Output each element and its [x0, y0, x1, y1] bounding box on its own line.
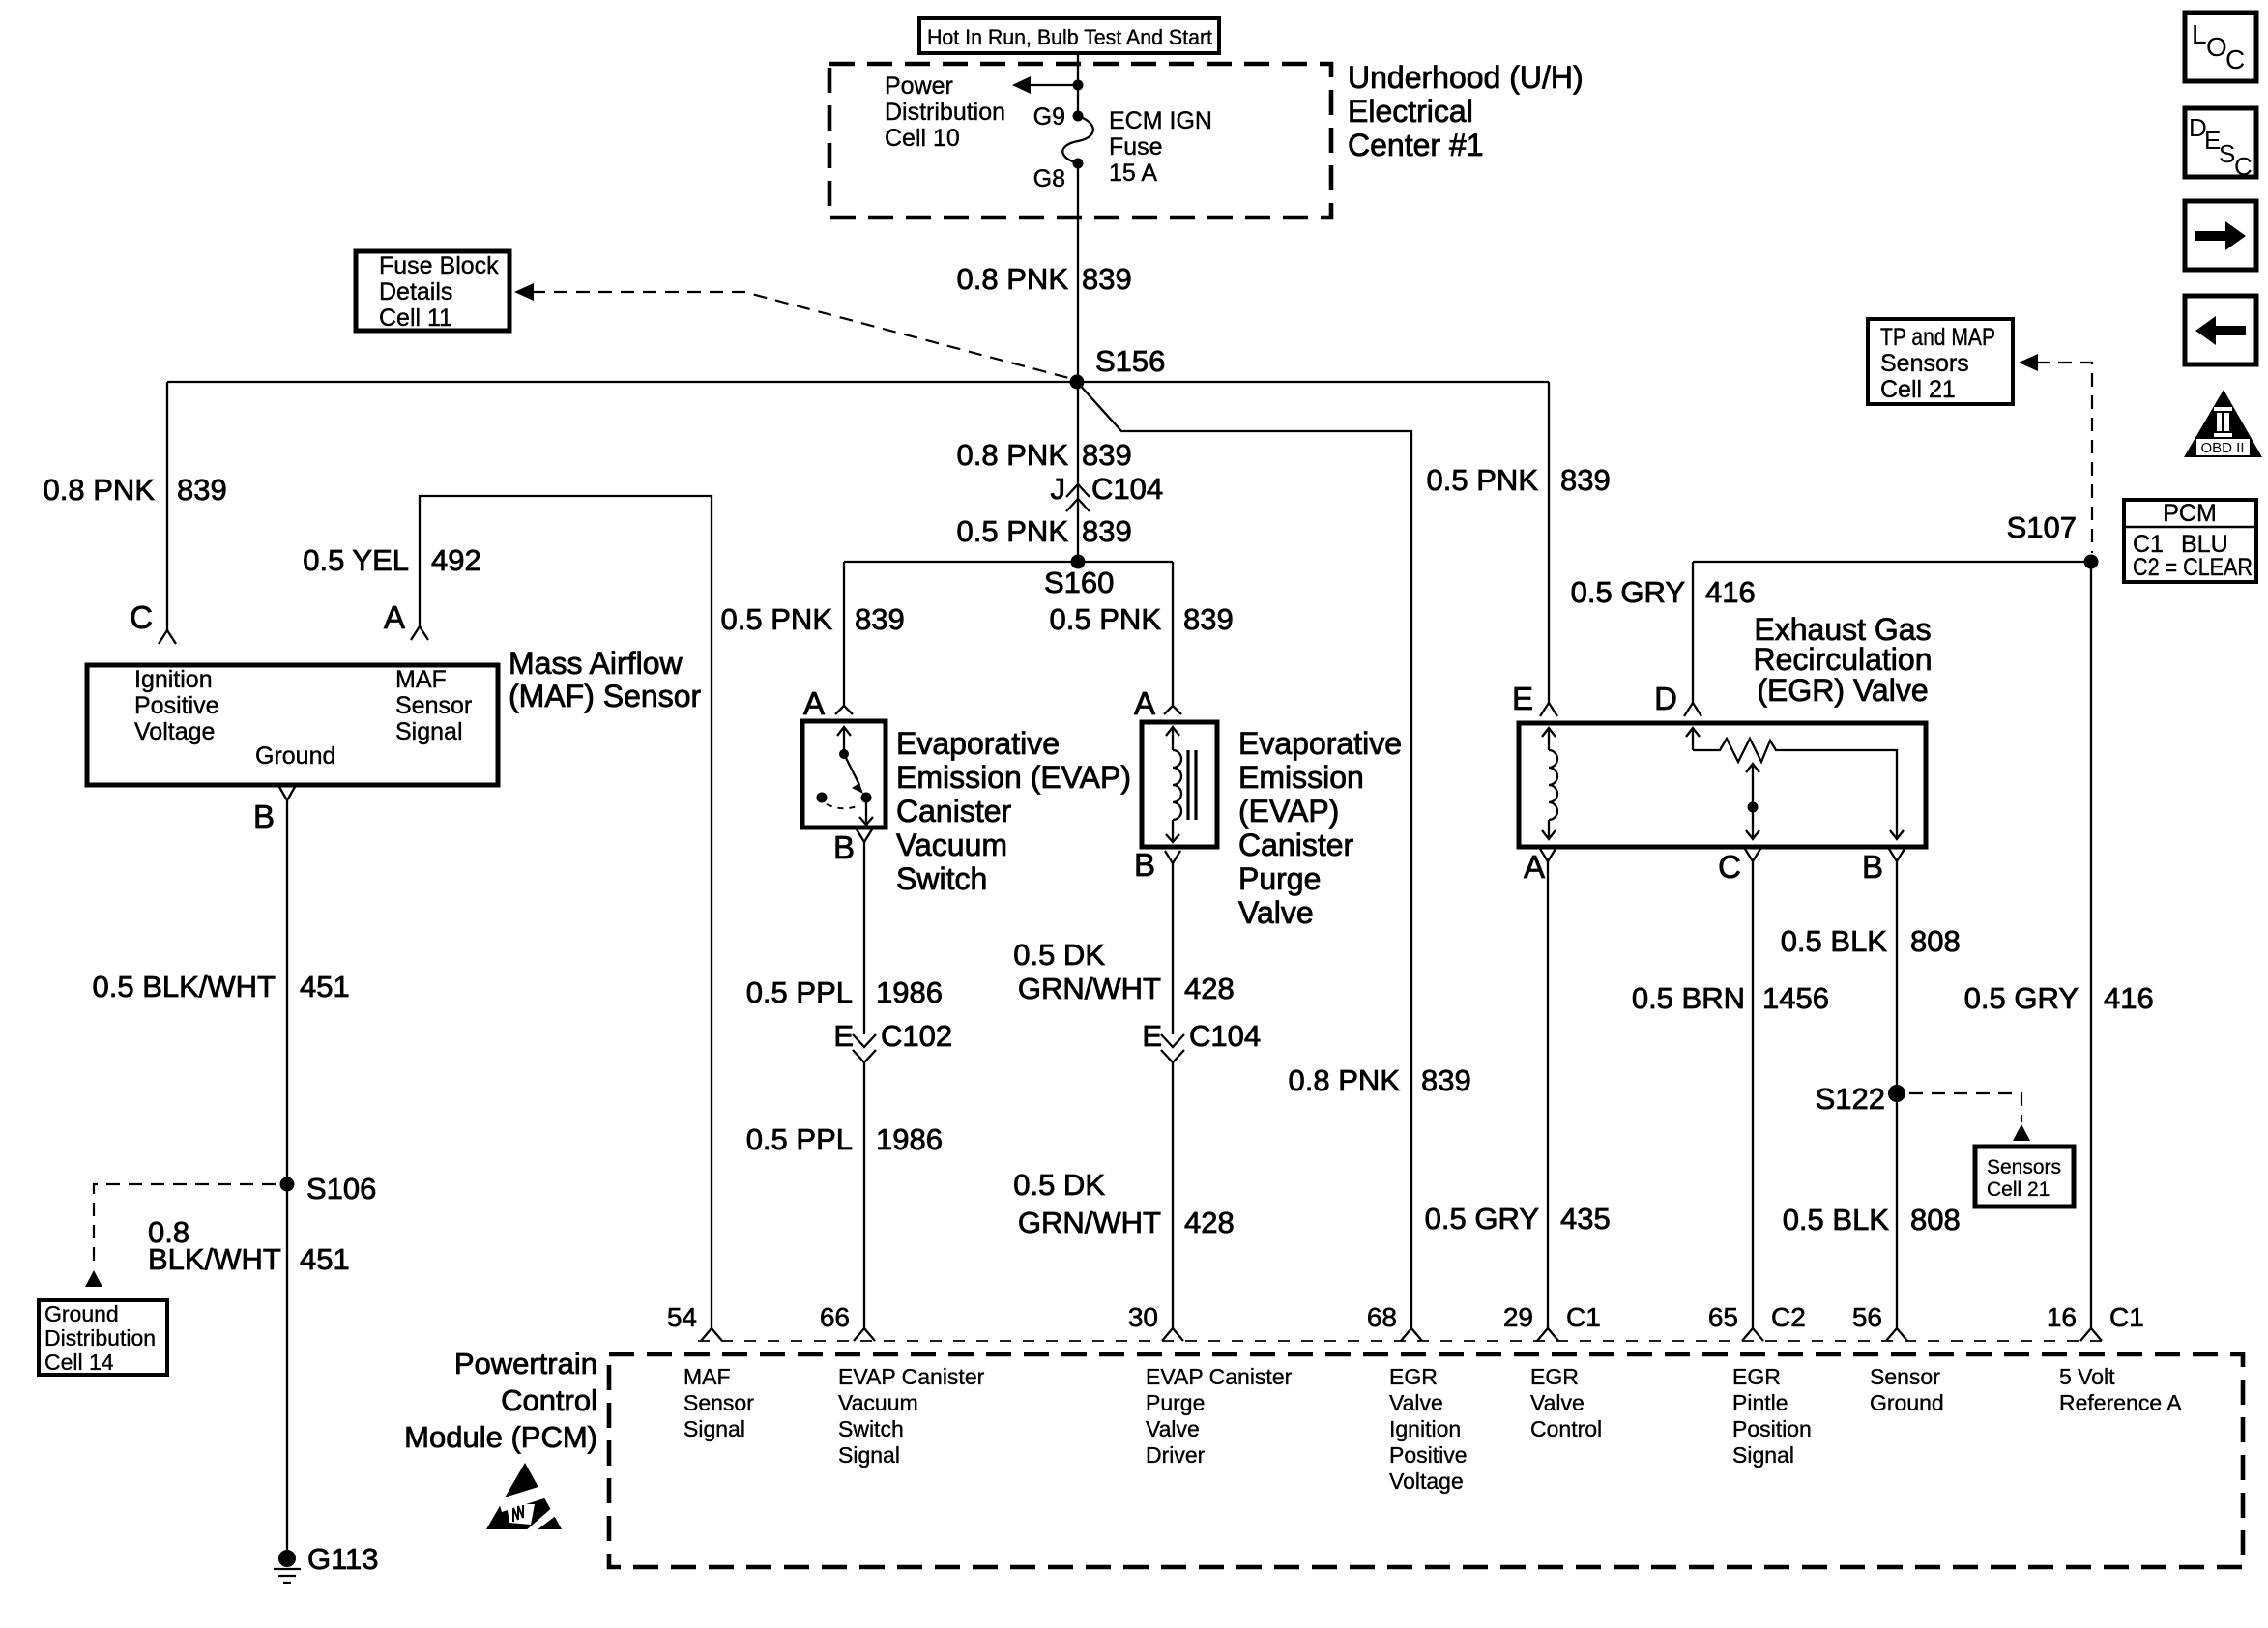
svg-text:C2 = CLEAR: C2 = CLEAR — [2133, 554, 2253, 581]
wire: drop S156 to S160 with connector — [1077, 382, 1079, 562]
svg-text:0.8 PNK: 0.8 PNK — [957, 262, 1069, 296]
svg-text:Emission (EVAP): Emission (EVAP) — [896, 760, 1131, 795]
svg-text:Sensor: Sensor — [395, 692, 472, 719]
PCM connector row: female terminals — [698, 1340, 2104, 1342]
wire: power distribution arrow stub — [1012, 76, 1084, 94]
wire: feed from Hot box to fuse — [1077, 55, 1079, 116]
svg-text:Evaporative: Evaporative — [1238, 726, 1402, 761]
svg-text:Vacuum: Vacuum — [896, 828, 1007, 862]
svg-text:Valve: Valve — [1530, 1390, 1585, 1415]
svg-text:GRN/WHT: GRN/WHT — [1018, 1206, 1161, 1239]
terminal D of EGR — [1654, 562, 1701, 716]
terminal pin 54 — [701, 1328, 712, 1341]
svg-text:C: C — [130, 599, 153, 635]
svg-text:Signal: Signal — [683, 1416, 745, 1441]
terminal B of purge valve — [1134, 847, 1180, 883]
svg-text:GRN/WHT: GRN/WHT — [1018, 972, 1161, 1005]
svg-text:1986: 1986 — [876, 975, 943, 1009]
svg-text:Valve: Valve — [1146, 1416, 1200, 1441]
svg-text:16: 16 — [2047, 1302, 2077, 1332]
svg-text:S107: S107 — [2007, 510, 2077, 544]
svg-text:J: J — [1051, 472, 1066, 506]
svg-text:Valve: Valve — [1238, 895, 1314, 930]
svg-text:Cell 14: Cell 14 — [44, 1350, 114, 1375]
solenoid L2 (EGR coil E-A) — [1542, 728, 1557, 839]
splice S106 — [280, 1172, 377, 1206]
svg-text:S106: S106 — [306, 1172, 376, 1206]
icon: forward arrow box — [2185, 201, 2256, 270]
svg-text:0.5 PNK: 0.5 PNK — [1427, 463, 1539, 497]
svg-text:Signal: Signal — [395, 718, 463, 745]
svg-text:492: 492 — [431, 543, 481, 577]
svg-text:Distribution: Distribution — [44, 1325, 156, 1351]
svg-text:(MAF) Sensor: (MAF) Sensor — [509, 679, 701, 713]
svg-text:65: 65 — [1708, 1302, 1738, 1332]
MAF sensor box — [87, 665, 498, 785]
svg-text:A: A — [803, 685, 825, 721]
svg-text:Cell 21: Cell 21 — [1880, 376, 1956, 403]
svg-text:839: 839 — [1421, 1063, 1471, 1097]
svg-text:1456: 1456 — [1762, 981, 1829, 1015]
svg-text:(EVAP): (EVAP) — [1238, 794, 1339, 829]
connector E C104 — [1142, 1019, 1261, 1062]
EGR valve box — [1519, 723, 1926, 847]
svg-text:56: 56 — [1852, 1302, 1882, 1332]
underhood electrical center dashed box — [829, 64, 1331, 218]
svg-text:B: B — [253, 799, 275, 834]
svg-text:TP and MAP: TP and MAP — [1880, 324, 1995, 351]
terminal A of vacuum switch — [803, 685, 853, 721]
svg-text:E: E — [1512, 681, 1533, 716]
svg-text:Driver: Driver — [1146, 1442, 1206, 1468]
svg-text:Fuse Block: Fuse Block — [379, 252, 499, 279]
svg-text:Positive: Positive — [134, 692, 219, 719]
label: Evaporative Emission (EVAP) Canister Vacuum Switch — [896, 726, 1131, 896]
svg-text:Sensors: Sensors — [1880, 350, 1969, 377]
terminal B of MAF — [253, 787, 295, 834]
node: Ground Distribution Cell 14 box — [39, 1300, 167, 1375]
svg-text:PCM: PCM — [2163, 500, 2217, 527]
svg-text:O: O — [2206, 32, 2227, 62]
svg-text:Power: Power — [885, 73, 953, 100]
svg-text:Ground: Ground — [255, 742, 335, 770]
svg-text:Vacuum: Vacuum — [838, 1390, 918, 1415]
svg-text:0.5 PNK: 0.5 PNK — [1050, 602, 1162, 636]
svg-text:Ignition: Ignition — [134, 666, 213, 693]
svg-text:Mass Airflow: Mass Airflow — [509, 646, 683, 681]
wire: purge B to pin 30 — [1172, 863, 1174, 1034]
splice S156 — [1070, 344, 1166, 390]
terminal B of vacuum switch — [833, 829, 872, 865]
svg-text:Canister: Canister — [1238, 828, 1354, 862]
svg-text:Distribution: Distribution — [885, 99, 1005, 126]
terminal A of purge valve — [1134, 685, 1181, 721]
connector E C102 — [833, 1019, 952, 1062]
svg-text:D: D — [1654, 681, 1677, 716]
label: Powertrain Control Module (PCM) — [404, 1347, 597, 1454]
svg-text:0.5 BLK: 0.5 BLK — [1783, 1203, 1890, 1236]
svg-text:839: 839 — [1183, 602, 1234, 636]
wire: dashed reference S107 to TP/MAP — [2019, 354, 2092, 553]
svg-text:C: C — [2225, 44, 2245, 74]
wire: main horizontal bus at S156 — [167, 381, 1549, 383]
svg-text:Ignition: Ignition — [1389, 1416, 1461, 1441]
svg-text:30: 30 — [1128, 1302, 1158, 1332]
node: Fuse Block Details Cell 11 box — [356, 251, 509, 332]
icon: DESC box — [2185, 108, 2256, 181]
svg-text:0.5 BLK/WHT: 0.5 BLK/WHT — [93, 970, 276, 1003]
svg-text:B: B — [833, 829, 855, 865]
svg-text:Control: Control — [501, 1383, 597, 1417]
svg-text:EVAP Canister: EVAP Canister — [838, 1364, 985, 1389]
svg-text:C: C — [2234, 152, 2253, 181]
svg-text:839: 839 — [1082, 438, 1132, 472]
label: Evaporative Emission (EVAP) Canister Purge Valve — [1238, 726, 1402, 930]
svg-text:A: A — [1134, 685, 1155, 721]
svg-text:Control: Control — [1530, 1416, 1602, 1441]
EVAP canister vacuum switch box — [802, 721, 886, 828]
svg-text:839: 839 — [1082, 262, 1132, 296]
switch SW1 internals — [817, 727, 874, 825]
svg-text:416: 416 — [1705, 575, 1756, 609]
svg-text:Module (PCM): Module (PCM) — [404, 1420, 597, 1454]
svg-text:428: 428 — [1184, 972, 1235, 1005]
svg-text:Evaporative: Evaporative — [896, 726, 1060, 761]
svg-text:Pintle: Pintle — [1732, 1390, 1788, 1415]
icon: back arrow box — [2185, 296, 2256, 364]
svg-text:Purge: Purge — [1238, 861, 1321, 896]
svg-text:54: 54 — [667, 1302, 697, 1332]
wire: drop to EVAP vacuum switch A — [843, 562, 845, 706]
splice S122 — [1816, 1082, 1905, 1116]
svg-text:5 Volt: 5 Volt — [2059, 1364, 2115, 1389]
svg-text:MAF: MAF — [395, 666, 447, 693]
svg-text:0.8 PNK: 0.8 PNK — [1289, 1063, 1401, 1097]
svg-text:Underhood (U/H): Underhood (U/H) — [1348, 60, 1584, 95]
wire: drop to EVAP purge valve A — [1172, 562, 1174, 706]
svg-text:Hot In Run, Bulb Test And Star: Hot In Run, Bulb Test And Start — [927, 25, 1212, 49]
svg-text:G9: G9 — [1033, 103, 1065, 131]
svg-text:A: A — [1524, 849, 1545, 885]
svg-text:G113: G113 — [307, 1542, 379, 1576]
solenoid L1 internals — [1166, 727, 1196, 842]
svg-text:E: E — [833, 1019, 854, 1053]
terminal pin 68 — [1401, 1328, 1411, 1341]
svg-text:Positive: Positive — [1389, 1442, 1468, 1468]
svg-text:EVAP Canister: EVAP Canister — [1146, 1364, 1293, 1389]
svg-text:808: 808 — [1910, 1203, 1961, 1236]
node: Hot In Run feed box — [919, 18, 1219, 53]
svg-text:Cell 21: Cell 21 — [1987, 1178, 2050, 1201]
svg-text:0.5 PPL: 0.5 PPL — [746, 975, 853, 1009]
label 0.8 BLK/WHT 451 — [148, 1215, 350, 1276]
svg-text:S: S — [2219, 139, 2235, 168]
connector J C104 — [1051, 472, 1164, 511]
svg-text:Purge: Purge — [1146, 1390, 1205, 1415]
svg-text:0.8 PNK: 0.8 PNK — [957, 438, 1069, 472]
svg-text:Valve: Valve — [1389, 1390, 1443, 1415]
svg-text:ECM IGN: ECM IGN — [1109, 107, 1212, 134]
svg-text:Reference A: Reference A — [2059, 1390, 2182, 1415]
node: PCM connector legend box — [2124, 500, 2256, 582]
svg-text:EGR: EGR — [1732, 1364, 1781, 1389]
terminal pin 66 — [854, 1328, 864, 1341]
svg-text:C1: C1 — [1566, 1302, 1601, 1332]
svg-text:Center #1: Center #1 — [1348, 128, 1484, 162]
svg-text:Details: Details — [379, 278, 452, 305]
svg-text:Ground: Ground — [44, 1301, 119, 1326]
svg-text:Switch: Switch — [896, 861, 987, 896]
wire: EGR B to pin 56 — [1896, 861, 1898, 1328]
splice S160 — [1044, 555, 1114, 600]
svg-text:0.5 YEL: 0.5 YEL — [303, 543, 409, 577]
svg-text:Emission: Emission — [1238, 760, 1364, 795]
svg-text:808: 808 — [1910, 924, 1961, 958]
svg-text:Cell 10: Cell 10 — [885, 125, 960, 152]
svg-text:0.8 PNK: 0.8 PNK — [44, 473, 156, 507]
svg-text:0.5 GRY: 0.5 GRY — [1964, 981, 2079, 1015]
svg-text:A: A — [384, 599, 405, 635]
terminal C of EGR — [1718, 849, 1760, 885]
svg-text:L: L — [2192, 19, 2207, 49]
label: Underhood Electrical Center — [1348, 60, 1584, 162]
terminal C of MAF — [130, 599, 176, 644]
svg-text:451: 451 — [300, 1242, 350, 1276]
svg-text:839: 839 — [1082, 514, 1132, 548]
wire: branch to pin 68 — [1077, 382, 1411, 1328]
svg-text:Switch: Switch — [838, 1416, 904, 1441]
svg-text:Sensor: Sensor — [1870, 1364, 1940, 1389]
svg-text:C104: C104 — [1091, 472, 1163, 506]
PCM pin function labels — [683, 1364, 754, 1441]
svg-text:416: 416 — [2104, 981, 2154, 1015]
svg-text:Voltage: Voltage — [134, 718, 215, 745]
svg-text:EGR: EGR — [1530, 1364, 1579, 1389]
svg-text:G8: G8 — [1033, 165, 1065, 192]
svg-text:C102: C102 — [881, 1019, 952, 1053]
wire: S107 bus to D — [1693, 561, 2091, 563]
terminal E of EGR — [1512, 681, 1557, 716]
wire: S107 to pin 16 — [2090, 562, 2092, 1328]
wire: S160 bus — [844, 561, 1173, 563]
svg-text:S122: S122 — [1816, 1082, 1885, 1116]
wire: EGR C to pin 65 — [1752, 861, 1754, 1328]
pin numbers — [667, 1302, 2144, 1332]
svg-text:428: 428 — [1184, 1206, 1235, 1239]
terminal pin 29 — [1537, 1328, 1548, 1341]
svg-text:Sensor: Sensor — [683, 1390, 754, 1415]
svg-text:29: 29 — [1503, 1302, 1533, 1332]
svg-text:0.5 PNK: 0.5 PNK — [721, 602, 833, 636]
wire: dashed reference S122 to sensors cell — [1909, 1093, 2030, 1141]
label: Mass Airflow (MAF) Sensor — [509, 646, 701, 713]
wire: right drop to EGR E — [1548, 382, 1550, 703]
svg-text:(EGR) Valve: (EGR) Valve — [1757, 673, 1928, 708]
terminal pin 65 — [1742, 1328, 1753, 1341]
wire: MAF A signal to pin 54 — [420, 496, 712, 1328]
svg-text:0.5 DK: 0.5 DK — [1013, 1168, 1105, 1202]
PCM dashed box — [609, 1354, 2243, 1567]
svg-text:C104: C104 — [1189, 1019, 1261, 1053]
svg-text:Ground: Ground — [1870, 1390, 1944, 1415]
svg-text:S160: S160 — [1044, 566, 1114, 599]
svg-text:Signal: Signal — [1732, 1442, 1794, 1468]
svg-text:0.5 BLK: 0.5 BLK — [1781, 924, 1888, 958]
wire: EGR A to pin 29 — [1547, 861, 1549, 1328]
label: Exhaust Gas Recirculation (EGR) Valve — [1754, 612, 1933, 708]
svg-text:C2: C2 — [1771, 1302, 1806, 1332]
svg-text:Position: Position — [1732, 1416, 1812, 1441]
svg-text:Signal: Signal — [838, 1442, 900, 1468]
icon: OBD II triangle — [2184, 390, 2262, 457]
terminal pin 16 — [2080, 1328, 2091, 1341]
terminal pin 30 — [1162, 1328, 1173, 1341]
node: Sensors Cell 21 box — [1975, 1147, 2074, 1206]
terminal B of EGR — [1862, 849, 1905, 885]
svg-text:839: 839 — [177, 473, 227, 507]
svg-text:BLK/WHT: BLK/WHT — [148, 1242, 281, 1276]
potentiometer R1 (EGR pintle position) — [1686, 728, 1904, 839]
svg-text:0.5 GRY: 0.5 GRY — [1425, 1202, 1539, 1236]
svg-text:1986: 1986 — [876, 1122, 943, 1156]
svg-text:Voltage: Voltage — [1389, 1468, 1464, 1494]
svg-text:EGR: EGR — [1389, 1364, 1438, 1389]
svg-text:B: B — [1134, 847, 1155, 883]
svg-text:0.5 DK: 0.5 DK — [1013, 938, 1105, 972]
svg-text:B: B — [1862, 849, 1883, 885]
svg-text:MAF: MAF — [683, 1364, 731, 1389]
svg-text:Canister: Canister — [896, 794, 1012, 829]
svg-text:0.5 PNK: 0.5 PNK — [957, 514, 1069, 548]
svg-text:0.5 GRY: 0.5 GRY — [1571, 575, 1685, 609]
svg-text:839: 839 — [1560, 463, 1611, 497]
svg-text:66: 66 — [820, 1302, 850, 1332]
terminal pin 56 — [1886, 1328, 1897, 1341]
svg-text:Powertrain: Powertrain — [454, 1347, 597, 1381]
EVAP canister purge valve box — [1142, 722, 1217, 847]
icon: LOC box — [2185, 13, 2256, 81]
label: ECM IGN Fuse 15 A — [1109, 107, 1212, 187]
terminal A of MAF — [384, 599, 428, 640]
svg-text:Cell 11: Cell 11 — [379, 305, 452, 332]
splice S107 — [2007, 510, 2099, 569]
svg-text:839: 839 — [855, 602, 905, 636]
svg-text:451: 451 — [300, 970, 350, 1003]
svg-text:0.5 PPL: 0.5 PPL — [746, 1122, 853, 1156]
fuse F1 ECM IGN 15A — [1062, 111, 1093, 169]
svg-text:15 A: 15 A — [1109, 160, 1157, 187]
wire: 0.8 PNK 839 fuse to S156 — [1077, 163, 1079, 382]
svg-text:S156: S156 — [1095, 344, 1165, 378]
svg-text:Sensors: Sensors — [1987, 1156, 2061, 1178]
svg-text:C: C — [1718, 849, 1741, 885]
svg-text:Recirculation: Recirculation — [1754, 642, 1933, 677]
svg-text:435: 435 — [1560, 1202, 1611, 1236]
svg-text:OBD II: OBD II — [2200, 440, 2244, 456]
svg-text:68: 68 — [1367, 1302, 1397, 1332]
svg-text:0.5 BRN: 0.5 BRN — [1632, 981, 1745, 1015]
svg-text:Electrical: Electrical — [1348, 94, 1473, 129]
svg-text:E: E — [1142, 1019, 1162, 1053]
wire: dashed reference to ground distribution — [85, 1184, 276, 1287]
wire: switch B to pin 66 — [863, 842, 865, 1034]
node: TP and MAP Sensors Cell 21 box — [1868, 319, 2013, 404]
label: Power Distribution Cell 10 — [885, 73, 1005, 152]
wire: MAF ground B to G113 — [286, 800, 288, 1558]
terminal A of EGR — [1524, 849, 1556, 885]
wire: left drop to MAF C — [166, 382, 168, 630]
wire: dashed reference to fuse block — [514, 283, 1076, 380]
ESD symbol — [486, 1463, 562, 1533]
svg-text:C1: C1 — [2109, 1302, 2144, 1332]
ground G113 — [274, 1542, 379, 1583]
svg-text:Fuse: Fuse — [1109, 133, 1163, 160]
